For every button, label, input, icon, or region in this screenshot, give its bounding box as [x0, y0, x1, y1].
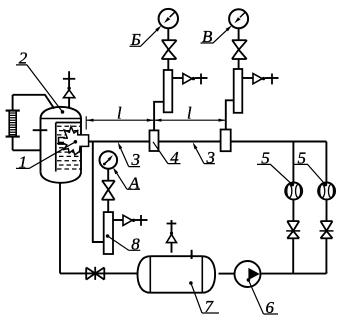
label B(cyr) with leader arrow — [130, 26, 162, 50]
vessel 2 (tank) — [41, 107, 82, 183]
valve V — [232, 40, 247, 59]
label 3 first with leader arrow — [118, 142, 140, 169]
svg-text:3: 3 — [131, 150, 141, 169]
wire coil-to-vessel top — [13, 95, 55, 109]
main pipe wire — [89, 141, 327, 143]
label 2 with leader — [16, 49, 64, 114]
wire branch left down — [292, 238, 294, 273]
gauge V (manometer) — [229, 9, 248, 28]
valve B — [162, 40, 177, 59]
wire chamber V to rect 3 — [226, 100, 234, 129]
label V(cyr) with leader arrow — [201, 25, 232, 45]
vessel left nozzle tick — [33, 129, 48, 131]
wire coil-to-vessel bottom — [13, 149, 41, 151]
label A(cyr) with leader arrow — [113, 167, 140, 192]
wire gauge V to valve — [238, 28, 240, 40]
wire bottom right pump line — [261, 272, 327, 274]
wire branch right down — [325, 238, 327, 273]
safety valve on vessel 7 — [167, 220, 177, 253]
heater coil E1 top stem wire — [12, 95, 14, 111]
vent of chamber V — [242, 74, 278, 85]
condensate chamber V — [234, 69, 243, 113]
label 1 with leader — [16, 140, 77, 172]
svg-text:l: l — [187, 104, 192, 123]
label 5 right with leader — [294, 149, 327, 187]
level sensor 1 (star head with body through wall) — [59, 127, 89, 155]
inner tank wall — [56, 123, 81, 172]
wire valve B to chamber — [167, 59, 169, 70]
wire gauge A to valve — [107, 169, 109, 181]
condensate chamber 8 — [104, 212, 113, 254]
wire chamber B to rect 4 — [154, 102, 164, 131]
wire capsule to pump — [219, 273, 235, 275]
dimension extension line — [85, 116, 87, 129]
dimension line l (span 1) — [86, 119, 154, 122]
orifice fitting 3 — [221, 130, 231, 152]
label 6 with leader — [247, 278, 278, 317]
vent of chamber B — [172, 74, 207, 85]
valve A — [102, 181, 115, 200]
label 5 left with leader — [257, 149, 294, 187]
label 8 with leader — [106, 234, 141, 253]
flow indicator 5 right — [318, 142, 335, 222]
gauge B (manometer) — [159, 9, 178, 28]
heater coil E1 — [6, 111, 20, 137]
condensate chamber B — [164, 70, 173, 112]
liquid hatch — [57, 126, 81, 169]
nozzle tick on vessel 7 — [191, 250, 193, 259]
heater coil E1 bottom stem wire — [12, 137, 14, 151]
wire gauge B to valve — [167, 28, 169, 40]
branch valve right — [320, 221, 334, 238]
vessel bottom pipe wire — [59, 183, 61, 273]
gauge A (manometer) — [100, 151, 118, 169]
label 4 with leader — [153, 142, 181, 167]
svg-text:l: l — [117, 104, 122, 123]
dimension line l (span 2) — [154, 119, 226, 122]
wire sensor outlet down to chamber 8 — [93, 142, 104, 243]
safety valve on vessel — [63, 71, 75, 108]
bottom pipe wire — [60, 272, 138, 274]
orifice fitting 4 — [150, 130, 159, 151]
branch valve left — [286, 221, 300, 238]
flow indicator 5 left — [285, 142, 302, 222]
label 3 second with leader arrow — [193, 142, 215, 167]
pump 6 — [235, 261, 261, 287]
label 7 with leader — [189, 281, 219, 316]
wire valve V to chamber — [238, 59, 240, 69]
receiver vessel 7 (capsule) — [138, 256, 216, 293]
vent of chamber 8 — [113, 215, 148, 226]
wire valve A to chamber 8 — [107, 200, 109, 212]
bottom valve V1 — [86, 267, 104, 280]
